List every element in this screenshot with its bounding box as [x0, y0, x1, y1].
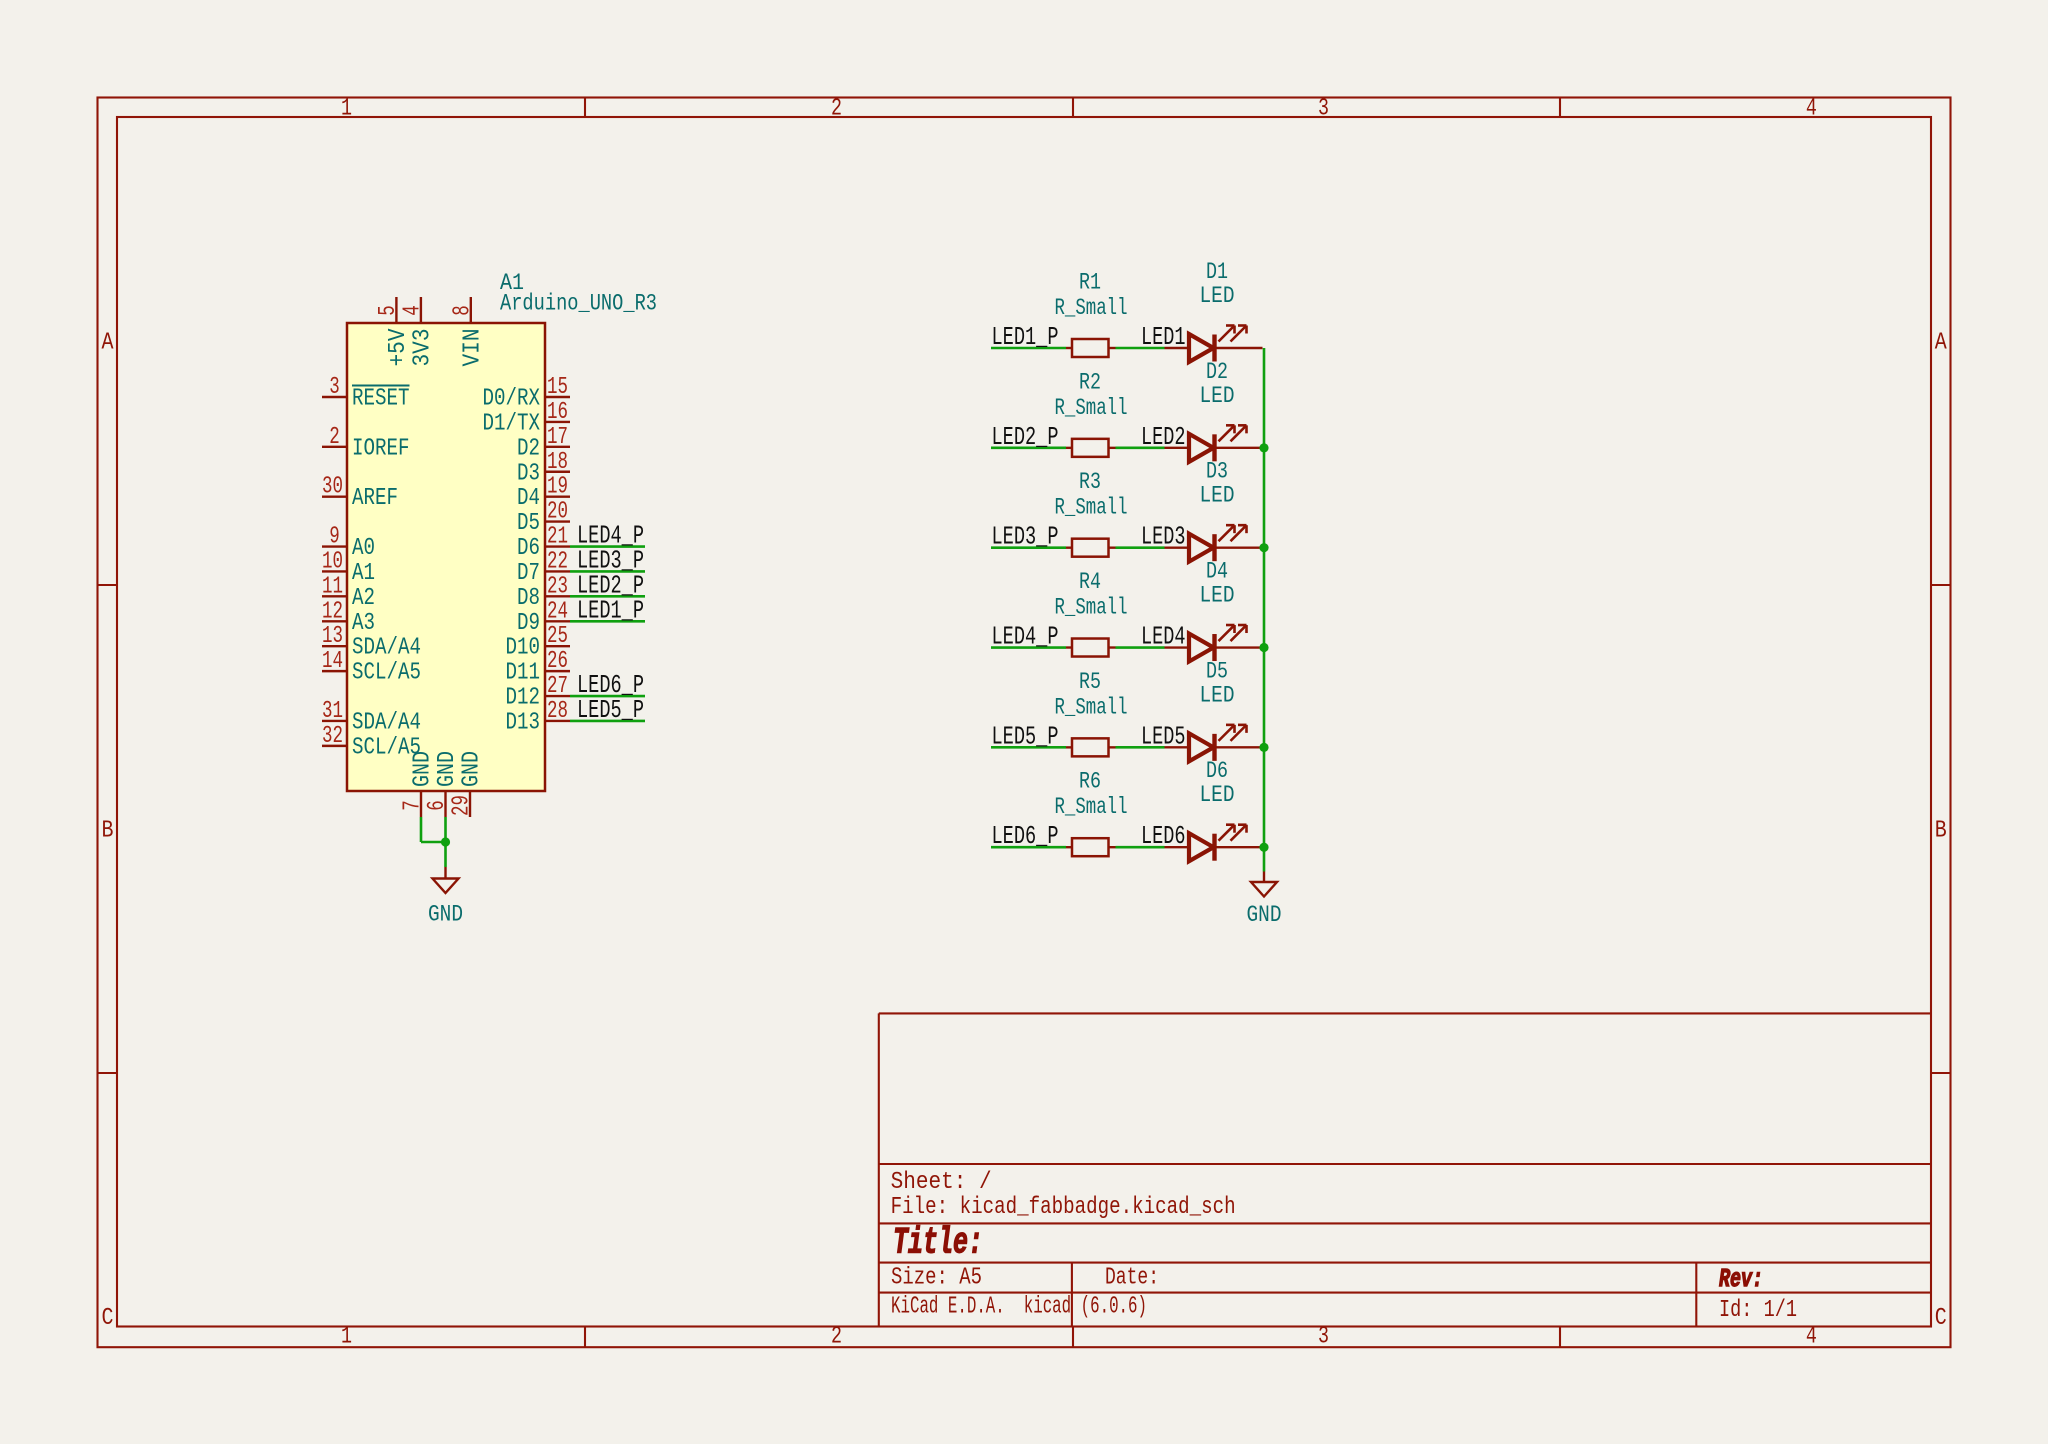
svg-text:LED1_P: LED1_P [992, 322, 1059, 352]
svg-text:R_Small: R_Small [1055, 694, 1128, 720]
svg-text:22: 22 [547, 548, 568, 575]
svg-text:D3: D3 [1206, 459, 1228, 485]
svg-text:32: 32 [322, 723, 343, 750]
svg-text:D11: D11 [506, 660, 541, 687]
svg-text:LED5_P: LED5_P [577, 695, 644, 725]
svg-text:KiCad E.D.A. kicad (6.0.6): KiCad E.D.A. kicad (6.0.6) [891, 1294, 1147, 1321]
svg-text:GND: GND [428, 902, 463, 928]
svg-text:23: 23 [547, 573, 568, 600]
svg-text:File: kicad_fabbadge.kicad_sch: File: kicad_fabbadge.kicad_sch [891, 1194, 1236, 1221]
svg-text:15: 15 [547, 374, 568, 401]
svg-text:5: 5 [375, 305, 402, 316]
svg-text:LED6_P: LED6_P [992, 821, 1059, 851]
svg-text:D7: D7 [517, 560, 540, 587]
svg-text:4: 4 [1806, 96, 1817, 123]
svg-text:D5: D5 [517, 510, 540, 537]
svg-text:D10: D10 [506, 635, 541, 662]
svg-text:LED4: LED4 [1141, 622, 1186, 652]
svg-text:C: C [102, 1305, 114, 1332]
svg-text:D9: D9 [517, 610, 540, 637]
svg-text:D4: D4 [517, 485, 540, 512]
svg-text:R6: R6 [1079, 769, 1101, 795]
svg-text:19: 19 [547, 474, 568, 501]
svg-text:D3: D3 [517, 460, 540, 487]
svg-text:R_Small: R_Small [1055, 595, 1128, 621]
svg-text:SDA/A4: SDA/A4 [352, 635, 421, 662]
svg-text:LED5_P: LED5_P [992, 721, 1059, 751]
svg-text:+5V: +5V [385, 328, 412, 367]
svg-text:28: 28 [547, 698, 568, 725]
svg-text:GND: GND [434, 751, 461, 787]
svg-text:A2: A2 [352, 585, 375, 612]
svg-text:14: 14 [322, 648, 343, 675]
svg-text:2: 2 [831, 96, 842, 123]
svg-text:1: 1 [341, 96, 352, 123]
svg-text:Id: 1/1: Id: 1/1 [1719, 1297, 1797, 1324]
svg-text:LED: LED [1200, 583, 1235, 609]
svg-text:D2: D2 [1206, 359, 1228, 385]
svg-text:30: 30 [322, 474, 343, 501]
svg-text:LED2_P: LED2_P [992, 422, 1059, 452]
svg-text:D2: D2 [517, 435, 540, 462]
svg-text:D6: D6 [1206, 758, 1228, 784]
svg-text:1: 1 [341, 1324, 352, 1351]
svg-text:LED: LED [1200, 483, 1235, 509]
svg-text:C: C [1935, 1305, 1947, 1332]
svg-text:A3: A3 [352, 610, 375, 637]
svg-text:26: 26 [547, 648, 568, 675]
svg-text:R_Small: R_Small [1055, 495, 1128, 521]
svg-text:LED: LED [1200, 682, 1235, 708]
svg-text:Arduino_UNO_R3: Arduino_UNO_R3 [500, 291, 657, 317]
svg-text:31: 31 [322, 698, 343, 725]
svg-text:6: 6 [424, 800, 451, 811]
svg-text:D5: D5 [1206, 658, 1228, 684]
svg-text:LED5: LED5 [1141, 721, 1186, 751]
svg-text:LED4_P: LED4_P [992, 622, 1059, 652]
svg-text:7: 7 [400, 800, 427, 811]
svg-text:D1: D1 [1206, 259, 1228, 285]
svg-text:SCL/A5: SCL/A5 [352, 660, 421, 687]
svg-text:25: 25 [547, 623, 568, 650]
svg-text:11: 11 [322, 573, 343, 600]
svg-text:VIN: VIN [459, 329, 486, 367]
svg-text:20: 20 [547, 499, 568, 526]
svg-text:2: 2 [329, 424, 340, 451]
svg-text:Sheet: /: Sheet: / [891, 1169, 992, 1196]
svg-text:D6: D6 [517, 535, 540, 562]
svg-text:D13: D13 [506, 709, 541, 736]
svg-text:27: 27 [547, 673, 568, 700]
svg-text:A1: A1 [352, 560, 375, 587]
svg-text:D4: D4 [1206, 559, 1228, 585]
svg-text:10: 10 [322, 548, 343, 575]
svg-text:LED3_P: LED3_P [992, 522, 1059, 552]
svg-text:D1/TX: D1/TX [483, 410, 541, 437]
svg-text:3V3: 3V3 [409, 329, 436, 367]
svg-text:A: A [102, 330, 114, 357]
svg-text:R2: R2 [1079, 369, 1101, 395]
svg-text:SDA/A4: SDA/A4 [352, 709, 421, 736]
svg-text:IOREF: IOREF [352, 435, 410, 462]
svg-text:LED2: LED2 [1141, 422, 1186, 452]
svg-text:D8: D8 [517, 585, 540, 612]
svg-text:R3: R3 [1079, 469, 1101, 495]
svg-text:LED3: LED3 [1141, 522, 1186, 552]
svg-text:3: 3 [1318, 96, 1329, 123]
svg-text:RESET: RESET [352, 386, 410, 413]
svg-text:4: 4 [1806, 1324, 1817, 1351]
svg-text:LED: LED [1200, 782, 1235, 808]
svg-text:D12: D12 [506, 685, 541, 712]
svg-text:2: 2 [831, 1324, 842, 1351]
svg-text:3: 3 [329, 374, 340, 401]
svg-text:LED: LED [1200, 283, 1235, 309]
svg-text:Title:: Title: [893, 1223, 983, 1265]
svg-text:LED6: LED6 [1141, 821, 1186, 851]
svg-text:29: 29 [449, 795, 476, 816]
svg-text:R5: R5 [1079, 669, 1101, 695]
svg-text:R4: R4 [1079, 569, 1101, 595]
svg-text:R1: R1 [1079, 270, 1101, 296]
svg-text:A0: A0 [352, 535, 375, 562]
svg-text:Size: A5: Size: A5 [891, 1265, 982, 1292]
svg-text:4: 4 [399, 305, 426, 316]
svg-text:B: B [102, 818, 114, 845]
svg-text:AREF: AREF [352, 485, 398, 512]
svg-text:LED1: LED1 [1141, 322, 1186, 352]
svg-text:B: B [1935, 818, 1947, 845]
svg-text:GND: GND [1247, 902, 1282, 928]
svg-text:8: 8 [449, 305, 476, 316]
svg-text:GND: GND [410, 751, 437, 787]
svg-text:9: 9 [329, 524, 340, 551]
svg-text:D0/RX: D0/RX [483, 386, 541, 413]
svg-text:12: 12 [322, 598, 343, 625]
svg-text:18: 18 [547, 449, 568, 476]
svg-text:A: A [1935, 330, 1947, 357]
svg-text:R_Small: R_Small [1055, 295, 1128, 321]
svg-text:Rev:: Rev: [1719, 1264, 1763, 1294]
svg-text:16: 16 [547, 399, 568, 426]
svg-text:R_Small: R_Small [1055, 794, 1128, 820]
svg-text:LED1_P: LED1_P [577, 595, 644, 625]
svg-text:13: 13 [322, 623, 343, 650]
svg-text:Date:: Date: [1105, 1265, 1159, 1292]
svg-text:LED: LED [1200, 383, 1235, 409]
svg-text:21: 21 [547, 524, 568, 551]
svg-text:24: 24 [547, 598, 568, 625]
svg-text:17: 17 [547, 424, 568, 451]
svg-text:3: 3 [1318, 1324, 1329, 1351]
svg-text:R_Small: R_Small [1055, 395, 1128, 421]
svg-text:GND: GND [459, 751, 486, 787]
